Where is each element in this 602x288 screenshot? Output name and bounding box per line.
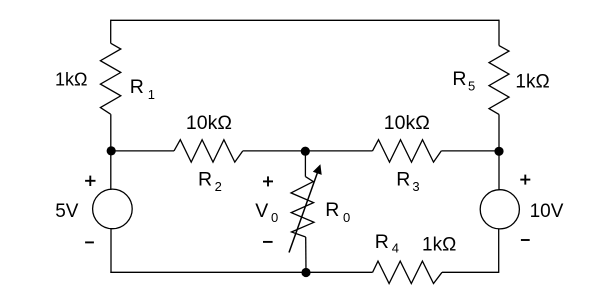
svg-text:10V: 10V (530, 201, 564, 222)
variable resistor R0 (291, 177, 314, 237)
svg-text:2: 2 (215, 179, 222, 194)
svg-text:0: 0 (343, 210, 350, 225)
wire R0 bottom to node D (305, 237, 307, 272)
node D junction dot (301, 268, 310, 277)
svg-text:R: R (452, 68, 466, 90)
wire top rail (111, 19, 499, 21)
wire middle rail R2 to node B (243, 150, 305, 152)
svg-text:3: 3 (412, 179, 419, 194)
node C junction dot (494, 147, 503, 156)
svg-text:R: R (375, 231, 389, 253)
wire 10V top to R5 bottom through node C (498, 114, 500, 190)
svg-text:0: 0 (271, 210, 278, 225)
wire middle rail R3 to node C (441, 150, 499, 152)
svg-text:5: 5 (468, 78, 475, 93)
wire 5V bottom to bottom rail (110, 229, 112, 273)
wire R1 bottom to node A (110, 114, 112, 190)
wire left rail upper (110, 20, 112, 44)
svg-text:1kΩ: 1kΩ (515, 71, 549, 92)
wire middle rail node A to R2 (111, 150, 174, 152)
plus sign of 10V source (520, 179, 530, 181)
arrowhead of variable resistor R0 (313, 164, 322, 175)
svg-text:1kΩ: 1kΩ (55, 70, 87, 90)
wire bottom rail left segment (110, 271, 372, 273)
svg-text:4: 4 (392, 240, 399, 255)
plus sign of V0 (263, 180, 273, 182)
svg-text:R: R (130, 76, 144, 98)
node A junction dot (107, 146, 116, 155)
svg-text:1kΩ: 1kΩ (422, 235, 456, 256)
voltage source V2 10V circle (480, 190, 519, 229)
svg-text:10kΩ: 10kΩ (186, 112, 232, 134)
plus sign of 5V source (85, 180, 95, 182)
voltage source V1 5V circle (93, 189, 133, 229)
svg-text:10kΩ: 10kΩ (384, 112, 430, 134)
wire right rail upper (498, 20, 500, 46)
minus sign of V0 (263, 241, 273, 243)
minus sign of 10V source (521, 239, 530, 241)
svg-text:R: R (396, 169, 410, 191)
arrow shaft of variable resistor R0 (289, 173, 318, 253)
wire node B to R0 top (304, 151, 306, 177)
resistor R2 (174, 140, 243, 162)
resistor R5 (489, 46, 509, 115)
svg-text:5V: 5V (55, 201, 79, 222)
minus sign of 5V source (85, 241, 94, 243)
wire bottom rail right segment (442, 271, 499, 273)
svg-text:R: R (325, 199, 339, 221)
svg-text:1: 1 (148, 87, 155, 102)
resistor R3 (373, 140, 442, 162)
svg-text:V: V (255, 200, 268, 222)
wire right rail lower (498, 229, 500, 273)
node B junction dot (301, 147, 310, 156)
wire middle rail node B to R3 (305, 150, 372, 152)
resistor R1 (100, 43, 120, 114)
svg-text:R: R (198, 169, 212, 191)
resistor R4 (373, 261, 442, 283)
